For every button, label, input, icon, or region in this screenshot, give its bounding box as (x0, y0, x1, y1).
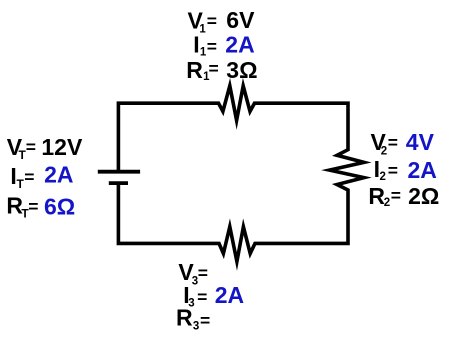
svg-text:2Ω: 2Ω (408, 183, 439, 209)
svg-text:=: = (388, 132, 398, 152)
svg-text:=: = (391, 186, 401, 206)
svg-text:=: = (209, 59, 219, 79)
svg-text:=: = (197, 287, 207, 307)
svg-text:2A: 2A (215, 282, 244, 308)
svg-text:4V: 4V (406, 129, 435, 155)
svg-text:R: R (186, 57, 203, 83)
svg-text:=: = (207, 36, 217, 56)
svg-text:12V: 12V (41, 134, 83, 160)
svg-text:T: T (17, 177, 25, 191)
svg-text:I: I (193, 31, 199, 57)
svg-text:2: 2 (381, 146, 387, 158)
svg-text:=: = (24, 167, 34, 187)
svg-text:=: = (388, 160, 398, 180)
svg-text:=: = (200, 310, 210, 330)
svg-text:=: = (26, 137, 36, 157)
svg-text:2: 2 (380, 171, 386, 183)
svg-text:1: 1 (199, 23, 206, 35)
svg-text:3: 3 (193, 320, 199, 332)
svg-text:=: = (28, 196, 38, 216)
svg-text:3Ω: 3Ω (226, 57, 257, 83)
svg-text:=: = (207, 11, 217, 31)
svg-text:2: 2 (384, 197, 390, 209)
svg-text:R: R (176, 304, 193, 330)
svg-text:=: = (198, 263, 208, 283)
svg-text:2A: 2A (44, 161, 73, 187)
svg-text:6Ω: 6Ω (44, 193, 75, 219)
svg-text:6V: 6V (226, 7, 255, 33)
svg-text:2A: 2A (225, 31, 254, 57)
svg-text:2A: 2A (408, 157, 437, 183)
